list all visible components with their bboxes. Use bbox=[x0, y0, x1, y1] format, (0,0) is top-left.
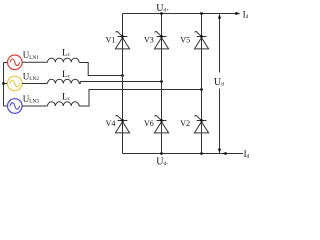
svg-text:Ud: Ud bbox=[214, 77, 224, 88]
wire U_d measure line lower bbox=[219, 89, 221, 153]
inductor L3 bbox=[48, 102, 80, 106]
node bottom rail leg3 bbox=[200, 152, 203, 155]
inductor L2 bbox=[48, 79, 80, 83]
svg-text:V5: V5 bbox=[180, 35, 190, 44]
svg-text:Lc: Lc bbox=[62, 49, 71, 59]
wire source3 to coil3 bbox=[22, 105, 47, 107]
svg-text:V6: V6 bbox=[144, 119, 154, 128]
arrow I_d bottom bbox=[222, 152, 227, 155]
svg-text:Id: Id bbox=[243, 9, 249, 20]
thyristor V5 bbox=[194, 31, 208, 48]
wire left neutral bus bbox=[3, 63, 5, 107]
wire phase 3 to bridge bbox=[79, 90, 201, 107]
ac source phase 3 bbox=[8, 99, 23, 114]
ac source phase 2 bbox=[8, 76, 23, 91]
node phase3-leg3 junction bbox=[200, 88, 203, 91]
svg-text:V4: V4 bbox=[106, 119, 116, 128]
wire stub to source 1 bbox=[4, 62, 8, 64]
node neutral junction bbox=[2, 82, 5, 85]
svg-text:Ud-: Ud- bbox=[156, 156, 168, 166]
wire phase 1 to bridge bbox=[79, 63, 122, 76]
node bottom rail leg2 bbox=[160, 152, 163, 155]
svg-text:Ud+: Ud+ bbox=[156, 3, 169, 14]
wire bridge leg 1 bbox=[122, 14, 124, 154]
wire top rail U_d+ bbox=[123, 13, 237, 15]
node phase2-leg2 junction bbox=[160, 80, 163, 83]
node phase1-leg1 junction bbox=[121, 74, 124, 77]
wire phase 2 to bridge bbox=[79, 82, 161, 84]
arrow U_d up bbox=[218, 14, 221, 19]
ac source phase 1 bbox=[8, 55, 23, 70]
svg-text:Lc: Lc bbox=[62, 70, 71, 80]
wire U_d measure line upper bbox=[219, 15, 221, 73]
wire bottom rail U_d- bbox=[123, 153, 244, 155]
inductor L1 bbox=[48, 58, 80, 62]
wire stub to source 2 bbox=[4, 83, 8, 85]
svg-text:ULN3: ULN3 bbox=[23, 94, 40, 105]
thyristor V1 bbox=[115, 31, 129, 48]
arrow I_d top bbox=[235, 12, 240, 15]
wire bridge leg 3 bbox=[201, 14, 203, 154]
thyristor V4 bbox=[115, 115, 129, 132]
svg-text:Id: Id bbox=[244, 149, 250, 160]
thyristor V2 bbox=[194, 115, 208, 132]
wire source2 to coil2 bbox=[22, 83, 47, 85]
node top rail leg2 bbox=[160, 12, 163, 15]
node top rail leg3 bbox=[200, 12, 203, 15]
wire source1 to coil1 bbox=[22, 61, 47, 63]
svg-text:Lc: Lc bbox=[62, 93, 71, 103]
svg-text:V2: V2 bbox=[180, 119, 190, 128]
thyristor V6 bbox=[154, 115, 168, 132]
arrow U_d down bbox=[218, 149, 221, 154]
thyristor V3 bbox=[154, 31, 168, 48]
svg-text:ULN1: ULN1 bbox=[23, 50, 40, 61]
svg-text:V3: V3 bbox=[144, 35, 154, 44]
svg-text:ULN2: ULN2 bbox=[23, 71, 40, 82]
svg-text:V1: V1 bbox=[106, 35, 116, 44]
wire stub to source 3 bbox=[4, 105, 8, 107]
wire bridge leg 2 bbox=[161, 14, 163, 154]
